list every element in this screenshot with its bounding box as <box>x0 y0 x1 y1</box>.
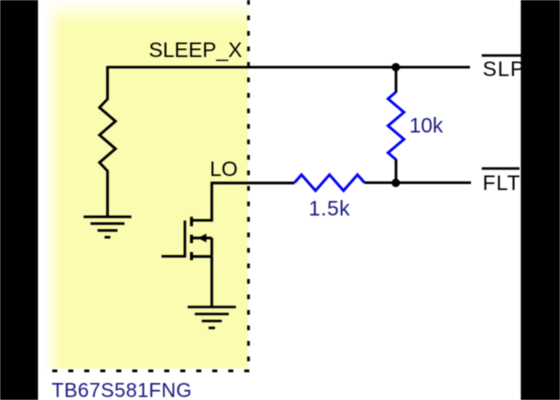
svg-text:1.5k: 1.5k <box>309 198 351 221</box>
drain wire from LO <box>210 182 213 222</box>
wire bottom lead of R3 <box>395 159 398 183</box>
wire top lead of R3 <box>395 67 398 92</box>
body arrow head <box>198 234 207 243</box>
svg-text:TB67S581FNG: TB67S581FNG <box>52 380 193 400</box>
junction node on SLEEP_X wire <box>392 63 400 71</box>
channel bar bottom <box>190 252 193 260</box>
ground GND2 <box>188 307 236 328</box>
body line with arrow <box>192 237 212 240</box>
transistor Q1 N-channel MOSFET <box>162 182 212 307</box>
wire LO net to FLT pin <box>365 181 472 184</box>
resistor R3 10k (blue zigzag) <box>388 92 404 160</box>
resistor R2 1.5k (blue zigzag) <box>295 175 365 191</box>
svg-text:SLEEP_X: SLEEP_X <box>149 39 242 62</box>
chip interior highlight (yellow region) <box>38 0 248 369</box>
resistor R1 internal pull-down (with leads) <box>100 66 116 217</box>
wire LO net (from corner to resistor) <box>212 182 295 185</box>
svg-text:FLT: FLT <box>483 172 521 195</box>
svg-text:SLP: SLP <box>483 58 526 81</box>
drain stub <box>192 219 212 222</box>
wire SLEEP_X net (top horizontal) <box>108 66 471 69</box>
gate lead <box>162 255 185 258</box>
channel bar middle <box>190 235 193 243</box>
ground GND1 <box>84 217 132 237</box>
channel bar top <box>190 217 193 226</box>
gate bar <box>184 221 187 258</box>
source wire down to ground <box>210 238 213 307</box>
pin SLP overline (active-low bar) <box>482 54 522 57</box>
svg-text:10k: 10k <box>409 115 443 138</box>
chip boundary (dashed border of TB67S581FNG) <box>47 0 249 371</box>
svg-text:LO: LO <box>210 158 238 181</box>
source stub <box>192 255 212 258</box>
pin FLT overline (active-low bar) <box>482 167 520 170</box>
junction node on FLT wire <box>392 179 400 187</box>
